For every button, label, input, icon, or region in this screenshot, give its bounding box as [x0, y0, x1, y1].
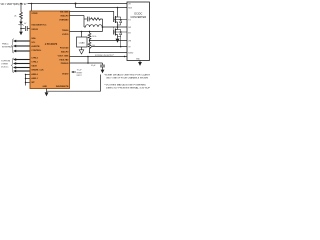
node dot rail tap — [75, 3, 77, 5]
capacitor C3 — [102, 63, 104, 65]
svg-text:VAUX: VAUX — [31, 65, 37, 68]
svg-text:PMBus: PMBus — [2, 44, 8, 46]
svg-text:SDA: SDA — [31, 37, 36, 40]
wire cap to pin — [27, 28, 30, 30]
svg-text:DC/DCs: DC/DCs — [1, 66, 8, 68]
node dot divider tap — [89, 31, 91, 33]
ground U1 bottom — [46, 89, 48, 93]
label uP reset — [77, 70, 83, 77]
wire tie stub 1 — [26, 74, 31, 76]
svg-text:GND: GND — [43, 86, 48, 88]
svg-text:VSENSE0: VSENSE0 — [59, 19, 69, 21]
resistor R2 sense — [89, 18, 102, 20]
wire VPWR stub — [31, 4, 33, 12]
svg-text:VOUT_SNS: VOUT_SNS — [58, 56, 69, 58]
svg-text:ALERTB: ALERTB — [31, 45, 40, 48]
ground C3 — [102, 67, 104, 70]
wire ctrl B4 — [16, 70, 30, 72]
wire Q2 gate from BG — [114, 28, 127, 33]
svg-text:SGND: SGND — [128, 52, 134, 54]
svg-text:ASEL1: ASEL1 — [31, 77, 38, 80]
transistor Q1 — [113, 17, 115, 22]
capacitor C2 sense — [87, 17, 89, 22]
wire ctrl A3 — [16, 50, 30, 52]
wire VIN_SNS rail — [76, 7, 128, 9]
svg-text:24.9k: 24.9k — [92, 36, 96, 38]
svg-text:TO/FROM: TO/FROM — [1, 60, 11, 62]
svg-text:PGOOD0: PGOOD0 — [60, 47, 69, 49]
wire agnd — [90, 52, 128, 54]
svg-text:ASEL0: ASEL0 — [31, 73, 38, 76]
svg-text:IDACP0: IDACP0 — [61, 50, 69, 53]
svg-text:VDD33/EXTVCC: VDD33/EXTVCC — [31, 24, 47, 26]
svg-text:CONVERTER: CONVERTER — [130, 16, 146, 19]
svg-text:VDDIO: VDDIO — [62, 74, 69, 76]
wire vddio — [70, 62, 103, 64]
wire ctrl B2 — [16, 63, 30, 65]
wire ctrl B3 — [16, 67, 30, 69]
wire vout sense — [70, 31, 103, 33]
node dot r4 bottom — [89, 52, 90, 53]
wire SW — [103, 26, 128, 28]
node dot sw left — [102, 26, 104, 28]
node dot fb — [89, 40, 90, 41]
svg-text:CTRL0: CTRL0 — [31, 58, 38, 60]
diode Q1 body — [118, 17, 121, 25]
svg-text:TO µP: TO µP — [77, 70, 83, 72]
resistor R4 bottom — [88, 41, 91, 53]
ground Q2 source — [117, 35, 119, 39]
svg-text:RESET: RESET — [77, 72, 83, 74]
transistor Q2 — [113, 30, 115, 35]
wire sense plus — [70, 15, 85, 17]
svg-text:ONLY ONE OF FOUR CHANNELS SHOW: ONLY ONE OF FOUR CHANNELS SHOWN — [106, 77, 149, 80]
wire gate top — [70, 12, 114, 18]
op-amp U1 LTC2974 body — [30, 11, 70, 89]
svg-text:WDI/RESETB: WDI/RESETB — [56, 86, 69, 88]
svg-text:INPUT: INPUT — [77, 75, 82, 77]
wire ctrl A1 — [16, 40, 30, 42]
wire fb — [90, 40, 128, 42]
wire sense node right — [102, 19, 104, 32]
wire Q1 drain — [117, 8, 119, 18]
wire Q1 source — [117, 22, 119, 27]
diode Q2 body — [118, 30, 121, 37]
svg-text:CTRL1: CTRL1 — [31, 62, 38, 64]
node dots tie bus — [25, 74, 26, 75]
svg-text:**VCORES MAY ALSO BE POWERED: **VCORES MAY ALSO BE POWERED — [104, 84, 147, 87]
wire node to cap — [21, 28, 25, 30]
ground load — [81, 47, 83, 50]
capacitor C1 — [25, 26, 27, 31]
svg-text:OTHER: OTHER — [1, 63, 9, 65]
node dot comp — [120, 46, 122, 48]
resistor R1 2k — [20, 12, 23, 22]
svg-text:SYSTEM 3.3V SUPPLY**: SYSTEM 3.3V SUPPLY** — [95, 55, 115, 57]
wire vout sns rail — [70, 56, 128, 58]
wire VIN top rail — [28, 3, 128, 5]
wire rc stub — [84, 18, 87, 20]
wire sense node left — [83, 16, 85, 28]
svg-text:VIN = VBATT(MIN) TO 9V: VIN = VBATT(MIN) TO 9V — [1, 2, 27, 6]
svg-text:LOAD: LOAD — [79, 41, 85, 44]
ground converter — [139, 61, 141, 63]
inductor L1 — [84, 25, 103, 27]
brace group B — [11, 58, 14, 73]
wire tie bus — [25, 75, 27, 86]
svg-text:VIN: VIN — [128, 4, 131, 6]
resistor R3 top — [88, 32, 91, 41]
svg-text:VDD25: VDD25 — [31, 29, 38, 31]
svg-text:SW: SW — [128, 27, 131, 29]
label U1 left pins — [31, 13, 47, 88]
label U1 right pins — [56, 11, 69, 88]
node dot load tap — [81, 31, 83, 33]
svg-text:PWRGD: PWRGD — [61, 63, 69, 65]
svg-text:0.1µF: 0.1µF — [91, 65, 95, 67]
diode D1 zener — [19, 22, 22, 25]
wire ctrl A2 — [16, 45, 30, 47]
wire TG — [114, 19, 127, 21]
note text — [104, 74, 151, 90]
brace group A — [11, 39, 14, 53]
node dot rail end — [124, 56, 125, 57]
svg-text:DIRECTLY FROM EXTERNAL 3.3V SU: DIRECTLY FROM EXTERNAL 3.3V SUP — [106, 87, 150, 90]
wire tie stub 3 — [26, 82, 31, 84]
wire rail jog — [75, 4, 77, 8]
svg-text:FAULTB0: FAULTB0 — [60, 59, 70, 62]
svg-text:VIN_SNS: VIN_SNS — [60, 11, 69, 13]
wire tie stub 2 — [26, 78, 31, 80]
svg-text:INTERFACE: INTERFACE — [2, 46, 14, 49]
wire gnd return bottom — [47, 75, 101, 92]
node dot bias tap — [20, 3, 22, 5]
wire ctrl B1 — [16, 59, 30, 61]
svg-text:TSNS0: TSNS0 — [62, 30, 69, 32]
node dot bias node — [20, 28, 22, 30]
svg-text:ITH: ITH — [128, 47, 130, 49]
svg-text:*SOME DETAILS OMITTED FOR CLAR: *SOME DETAILS OMITTED FOR CLARIT — [104, 74, 150, 77]
svg-text:VGPIO: VGPIO — [62, 34, 69, 36]
label box pins — [128, 4, 140, 61]
svg-text:VFB: VFB — [128, 40, 131, 42]
wire load drop — [81, 32, 83, 38]
node dot VPWR — [31, 3, 33, 5]
wire rail jog 2 — [87, 57, 89, 64]
svg-text:VDACP0: VDACP0 — [60, 14, 69, 17]
converter box — [127, 2, 149, 61]
wire comp — [91, 46, 127, 48]
wire zener to node — [20, 25, 22, 32]
load box — [77, 37, 88, 47]
wire bias drop — [20, 4, 22, 13]
svg-text:LTC2974: LTC2974 — [45, 42, 58, 46]
svg-text:VPWR: VPWR — [31, 13, 38, 15]
wire Q2 drain — [117, 27, 119, 30]
wire uP reset — [73, 71, 76, 73]
svg-text:CONTROL: CONTROL — [31, 50, 42, 52]
ground bias — [19, 32, 23, 36]
svg-text:SHARE_CLK: SHARE_CLK — [31, 68, 44, 71]
